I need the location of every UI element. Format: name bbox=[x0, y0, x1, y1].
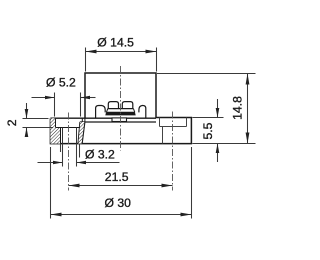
dim 14.8 line bbox=[247, 74, 249, 144]
bushing outer right wall bbox=[84, 118, 86, 122]
dim 5.5 ext lines bbox=[192, 117, 223, 119]
svg-text:Ø 30: Ø 30 bbox=[105, 196, 132, 210]
arrow 30 left bbox=[51, 213, 62, 217]
arrow 14.5 left bbox=[86, 50, 97, 54]
right notch bbox=[160, 118, 187, 144]
svg-text:Ø 5.2: Ø 5.2 bbox=[46, 76, 76, 90]
dim 30 ext lines bbox=[50, 147, 52, 219]
dim 30 line bbox=[51, 214, 192, 216]
dim 5.2 ext lines bbox=[54, 93, 56, 117]
arrow 2 top bbox=[25, 109, 29, 119]
dim 14.8 ext line bbox=[157, 73, 256, 75]
notch left wall bbox=[159, 118, 161, 127]
head bottom lines bbox=[108, 108, 134, 110]
bushing counterbore walls bbox=[55, 118, 57, 127]
svg-text:Ø 3.2: Ø 3.2 bbox=[85, 148, 115, 162]
center lines bbox=[69, 66, 173, 191]
dim 14.5 ext lines bbox=[85, 48, 87, 72]
flange plate outline bbox=[50, 118, 191, 144]
dim 14.5 line bbox=[86, 51, 157, 53]
arrow 5.2 right bbox=[81, 96, 91, 100]
screw lobes bbox=[108, 102, 118, 109]
tab bbox=[112, 118, 127, 122]
notch bottom bbox=[160, 126, 187, 128]
arrow 5.5 top bbox=[216, 108, 220, 118]
svg-text:5.5: 5.5 bbox=[201, 122, 215, 139]
arrowheads bbox=[25, 50, 250, 217]
arrow 14.8 top bbox=[246, 74, 250, 85]
center line: screw axis bbox=[120, 66, 122, 151]
dim 2 tails bbox=[26, 103, 28, 119]
arrow 2 bottom bbox=[25, 128, 29, 138]
dim 21.5 line bbox=[69, 185, 173, 187]
arrow 5.2 left bbox=[45, 96, 55, 100]
notch right wall bbox=[186, 118, 188, 127]
arrow 14.5 right bbox=[146, 50, 157, 54]
under-box line bbox=[80, 121, 156, 123]
plate top line left bbox=[50, 117, 112, 119]
svg-text:14.8: 14.8 bbox=[231, 96, 245, 120]
dim 3.2 ext lines bbox=[62, 144, 64, 167]
svg-text:21.5: 21.5 bbox=[105, 170, 129, 184]
arrow 14.8 bottom bbox=[246, 133, 250, 144]
notch inner wall bbox=[162, 127, 164, 144]
bushing hatch right bbox=[78, 122, 85, 144]
dim 2 ext lines bbox=[23, 118, 49, 120]
dim 3.2 tails bbox=[38, 162, 63, 164]
right shoulder bbox=[139, 106, 146, 118]
bushing hole walls bbox=[60, 128, 62, 144]
center line: right hidden hole axis bbox=[172, 112, 174, 191]
center line: mounting hole axis bbox=[68, 113, 70, 191]
dim 5.5 tails bbox=[217, 99, 219, 118]
arrow 3.2 left bbox=[53, 161, 63, 165]
svg-text:Ø 14.5: Ø 14.5 bbox=[97, 36, 134, 50]
arrow 21.5 left bbox=[69, 184, 80, 188]
arrow 3.2 right bbox=[77, 161, 87, 165]
arrow 21.5 right bbox=[162, 184, 173, 188]
bushing hatch left bbox=[50, 118, 60, 143]
dim 5.2 tails bbox=[32, 97, 55, 99]
svg-text:2: 2 bbox=[5, 119, 19, 126]
washer band bbox=[105, 112, 135, 115]
bushing seat line bbox=[56, 127, 80, 129]
body box outline bbox=[85, 73, 156, 118]
arrow 30 right bbox=[181, 213, 192, 217]
arrow 5.5 bottom bbox=[216, 144, 220, 154]
left shoulder bbox=[96, 106, 106, 119]
